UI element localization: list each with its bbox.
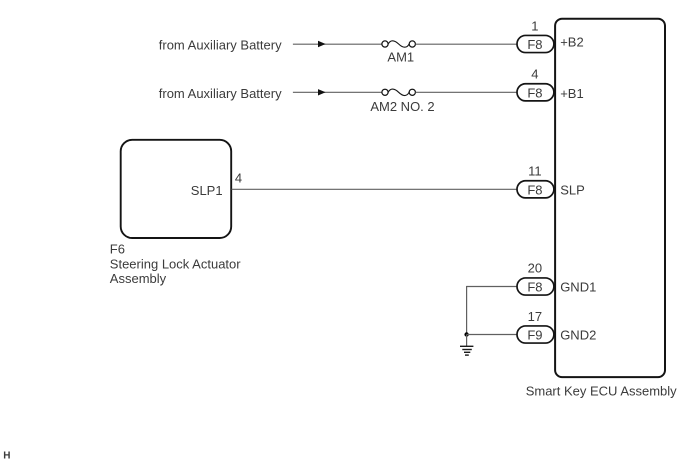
svg-text:F6: F6 <box>110 242 125 257</box>
junction node at ground tap <box>464 332 468 336</box>
pin label GND2 <box>560 328 596 343</box>
svg-text:+B2: +B2 <box>560 34 584 49</box>
svg-text:F8: F8 <box>527 37 542 52</box>
svg-text:AM1: AM1 <box>387 50 414 65</box>
svg-text:F8: F8 <box>527 85 542 100</box>
pin label GND1 <box>560 280 596 295</box>
fuse AM2 NO. 2 <box>370 89 434 114</box>
ground <box>460 335 473 356</box>
svg-text:F9: F9 <box>527 328 542 343</box>
svg-text:11: 11 <box>528 164 542 179</box>
svg-text:H: H <box>3 451 10 462</box>
pin label +B1 <box>560 86 584 101</box>
wire row1 from fuse AM1 to connector <box>416 43 518 45</box>
svg-text:F8: F8 <box>527 182 542 197</box>
svg-text:AM2 NO. 2: AM2 NO. 2 <box>370 99 434 114</box>
wire GND1 horizontal to connector <box>467 286 517 288</box>
svg-text:20: 20 <box>528 260 542 275</box>
svg-text:4: 4 <box>531 67 538 82</box>
svg-text:Smart Key ECU Assembly: Smart Key ECU Assembly <box>526 383 677 398</box>
pin label +B2 <box>560 34 584 49</box>
wire GND2 horizontal to connector <box>467 334 517 336</box>
connector F8 pin 4 <box>517 67 554 101</box>
svg-text:from Auxiliary Battery: from Auxiliary Battery <box>159 86 282 101</box>
svg-text:17: 17 <box>528 309 542 324</box>
connector F8 pin 1 <box>517 18 554 52</box>
svg-text:F8: F8 <box>527 280 542 295</box>
node from Auxiliary Battery (row 1 source label) <box>159 38 282 53</box>
wire GND vertical segment <box>466 286 468 335</box>
wire row2 from fuse AM2 to connector <box>416 91 518 93</box>
svg-text:4: 4 <box>235 171 242 186</box>
node from Auxiliary Battery (row 2 source label) <box>159 86 282 101</box>
connector F8 pin 20 <box>517 260 554 295</box>
svg-text:GND1: GND1 <box>560 280 596 295</box>
svg-text:from Auxiliary Battery: from Auxiliary Battery <box>159 38 282 53</box>
connector F8 pin 11 <box>517 164 554 198</box>
wire row1 from source to fuse AM1 (with arrow) <box>293 41 382 47</box>
svg-text:Assembly: Assembly <box>110 271 167 286</box>
op-amp/IC block U1 Smart Key ECU Assembly <box>526 19 677 399</box>
svg-text:Steering Lock Actuator: Steering Lock Actuator <box>110 256 241 271</box>
svg-text:SLP: SLP <box>560 182 585 197</box>
fuse AM1 <box>382 41 416 65</box>
label H (page index) <box>3 451 10 462</box>
pin label SLP <box>560 182 585 197</box>
svg-text:1: 1 <box>531 18 538 33</box>
wire row2 from source to fuse AM2 (with arrow) <box>293 89 382 95</box>
svg-text:+B1: +B1 <box>560 86 584 101</box>
wire row3 SLP from SLP1 box to connector <box>232 188 518 190</box>
connector F9 pin 17 <box>517 309 554 343</box>
svg-text:GND2: GND2 <box>560 328 596 343</box>
svg-text:SLP1: SLP1 <box>191 183 223 198</box>
component F6 Steering Lock Actuator Assembly (SLP1 box) <box>110 140 242 286</box>
